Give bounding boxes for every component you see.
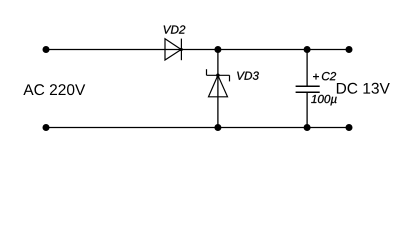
net label AC 220V (23, 84, 85, 95)
terminal bottom-right (346, 124, 353, 131)
terminal top-left (43, 46, 50, 53)
label C2 (322, 72, 336, 80)
junction node top of VD3 (214, 46, 221, 53)
net label DC 13V (337, 83, 390, 94)
wire capacitor branch lower (306, 92, 308, 127)
value label 100µ (311, 95, 336, 106)
label VD2 (164, 25, 186, 33)
capacitor C2 plates (296, 86, 320, 92)
wire bottom rail (46, 127, 349, 129)
diode VD2 (165, 39, 183, 61)
zener diode VD3 (207, 69, 230, 97)
terminal top-right (346, 46, 353, 53)
terminal bottom-left (43, 124, 50, 131)
junction node bottom of VD3 (214, 124, 221, 131)
wire capacitor branch upper (306, 50, 308, 87)
polarity plus sign of C2 (313, 74, 319, 80)
junction node bottom of C2 (304, 124, 311, 131)
wire top rail (46, 49, 349, 51)
junction node top of C2 (304, 46, 311, 53)
label VD3 (237, 72, 259, 80)
wire zener branch (217, 50, 219, 128)
